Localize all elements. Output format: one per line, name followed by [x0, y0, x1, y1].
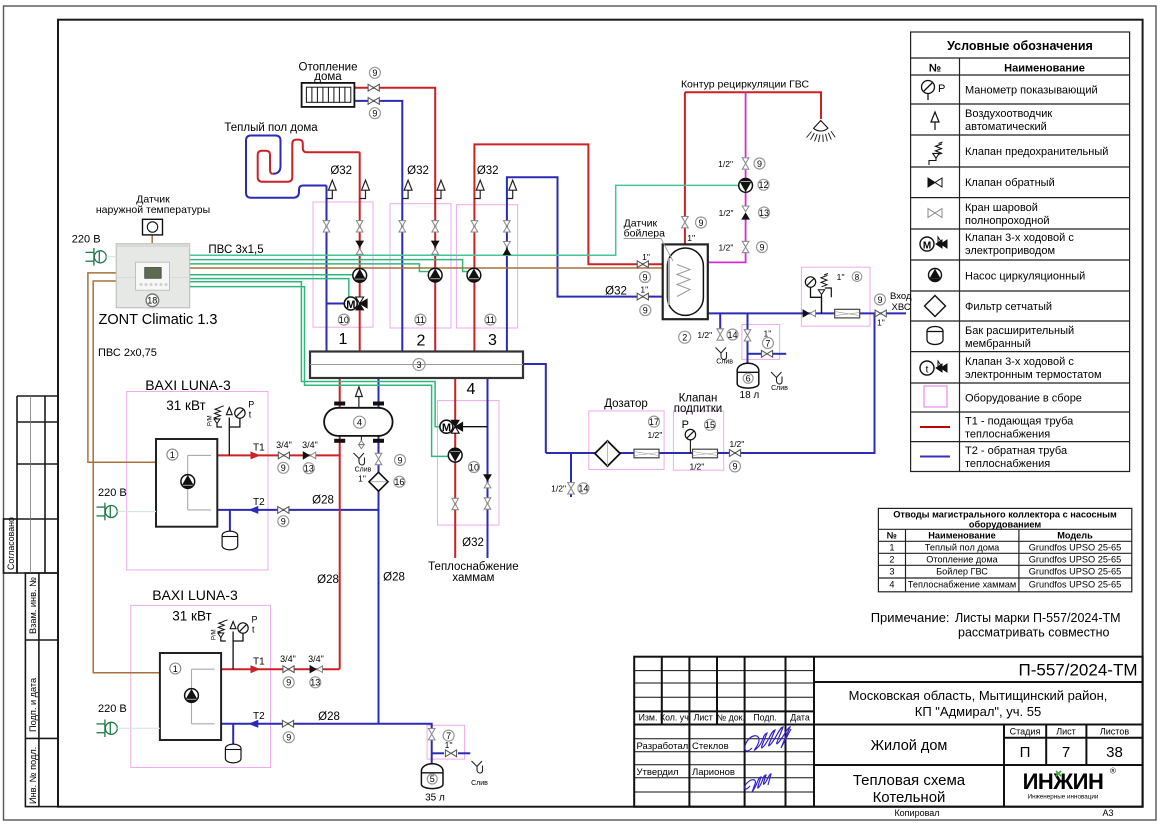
green control wires — [190, 185, 739, 456]
wire: boiler2 exp tank stem — [232, 724, 234, 746]
svg-text:ХВС: ХВС — [892, 302, 911, 313]
svg-text:Разработал: Разработал — [637, 741, 689, 752]
svg-text:1/2'': 1/2'' — [729, 439, 744, 449]
pump at 191.5,695.5 — [185, 689, 199, 703]
HVS inlet group — [803, 272, 862, 318]
svg-text:Ø28: Ø28 — [312, 495, 334, 507]
makeup valve box — [673, 411, 723, 470]
svg-text:Листы марки П-557/2024-ТМ: Листы марки П-557/2024-ТМ — [955, 611, 1121, 625]
boiler2 top instruments — [211, 615, 257, 670]
diameter labels — [312, 165, 627, 723]
svg-text:рассматривать совместно: рассматривать совместно — [958, 626, 1109, 640]
svg-text:P: P — [682, 419, 689, 431]
svg-text:1/2": 1/2" — [551, 484, 566, 494]
svg-text:Grundfos UPSO 25-65: Grundfos UPSO 25-65 — [1029, 567, 1121, 577]
svg-text:Согласовано: Согласовано — [6, 517, 16, 570]
air vent at 474.4,198.5 — [474, 180, 484, 198]
svg-text:38: 38 — [1106, 744, 1123, 761]
svg-text:электроприводом: электроприводом — [965, 245, 1055, 257]
boiler1 T1 valve — [278, 452, 289, 459]
manometer — [922, 81, 935, 101]
ball valve at 359.7,226.3 — [356, 221, 363, 232]
INZHIN logo — [1023, 767, 1116, 801]
T2 line — [920, 456, 950, 458]
svg-text:Насос циркуляционный: Насос циркуляционный — [965, 271, 1085, 283]
svg-text:220 В: 220 В — [98, 487, 127, 499]
svg-text:Фильтр сетчатый: Фильтр сетчатый — [965, 301, 1052, 313]
svg-text:Клапан предохранительный: Клапан предохранительный — [965, 146, 1108, 158]
svg-text:1": 1" — [642, 252, 650, 262]
svg-text:Ø28: Ø28 — [383, 572, 405, 584]
flange at 339.7,403.5 — [334, 402, 345, 406]
brown sensor wires — [88, 235, 674, 673]
wire: group1 blue pipe — [326, 186, 328, 352]
air vent at 402.3,198.5 — [402, 180, 412, 198]
svg-text:Т2: Т2 — [253, 711, 265, 722]
pump — [929, 269, 942, 282]
svg-text:P: P — [248, 400, 254, 410]
svg-text:3/4": 3/4" — [276, 440, 292, 450]
svg-text:Московская область, Мытищински: Московская область, Мытищинский район, — [849, 688, 1108, 703]
svg-text:1/2": 1/2" — [697, 330, 712, 340]
svg-text:31 кВт: 31 кВт — [166, 398, 205, 413]
wire: group4 blue pipe — [487, 378, 489, 558]
18l expansion group — [744, 330, 751, 341]
shower head — [807, 121, 836, 143]
wire: M1 branch — [327, 303, 345, 305]
svg-text:9: 9 — [759, 242, 764, 252]
svg-text:9: 9 — [372, 109, 377, 119]
svg-text:9: 9 — [698, 218, 703, 228]
membrane tank at 432.2,776 — [421, 764, 443, 789]
svg-text:Наименование: Наименование — [1004, 63, 1085, 75]
check valve — [928, 178, 942, 187]
svg-text:полнопроходной: полнопроходной — [965, 215, 1050, 227]
wire: to 3-way valve M1 — [190, 279, 349, 298]
wire: to 3-way valve group 4 — [190, 282, 440, 427]
svg-text:3: 3 — [889, 567, 894, 577]
T2 blue pipework — [217, 101, 906, 764]
group 4 box — [438, 401, 500, 525]
svg-text:2: 2 — [417, 333, 426, 350]
wire: to pump group 1 — [190, 274, 353, 276]
svg-text:ПВС 3х1,5: ПВС 3х1,5 — [208, 244, 263, 256]
svg-text:BAXI LUNA-3: BAXI LUNA-3 — [145, 377, 231, 393]
svg-text:Р/М: Р/М — [211, 629, 217, 640]
svg-text:бойлера: бойлера — [624, 228, 666, 240]
svg-text:М: М — [923, 241, 931, 252]
svg-text:Ø32: Ø32 — [605, 286, 627, 298]
wire: boiler1 T2 — [217, 509, 378, 511]
svg-text:220 В: 220 В — [72, 234, 101, 246]
svg-text:Контур рециркуляции ГВС: Контур рециркуляции ГВС — [681, 78, 810, 90]
svg-text:Стеклов: Стеклов — [692, 741, 729, 752]
svg-text:Оборудование в сборе: Оборудование в сборе — [965, 393, 1082, 405]
ZONT controller — [116, 244, 190, 308]
3-way valve M4 — [440, 420, 488, 434]
svg-text:1/2'': 1/2'' — [647, 430, 662, 440]
svg-text:4: 4 — [467, 381, 476, 398]
svg-text:35 л: 35 л — [425, 793, 445, 804]
boiler1 expansion tank — [222, 531, 238, 550]
collector — [310, 352, 523, 379]
tank drain branch — [717, 329, 724, 340]
gauge at 690.4,434.6 — [685, 429, 695, 439]
ball valve — [928, 209, 942, 218]
ball valve at 451,753.3 — [445, 750, 456, 757]
group 2 box — [390, 204, 451, 328]
svg-text:Утвердил: Утвердил — [637, 767, 679, 778]
svg-text:9: 9 — [757, 159, 762, 169]
dozator box — [589, 411, 664, 470]
svg-text:теплоснабжения: теплоснабжения — [965, 458, 1050, 470]
svg-text:9: 9 — [281, 517, 286, 527]
svg-text:Grundfos UPSO 25-65: Grundfos UPSO 25-65 — [1029, 555, 1121, 565]
svg-text:наружной температуры: наружной температуры — [96, 204, 210, 216]
wire: boiler 2 control — [93, 281, 160, 673]
svg-text:Клапан 3-х ходовой с: Клапан 3-х ходовой с — [965, 356, 1074, 368]
wire: recirculation riser — [745, 92, 747, 157]
membrane tank at 748,375.5 — [737, 363, 759, 388]
air vent at 359.7,198.5 — [360, 180, 370, 198]
wire: tank top hot outlet — [684, 92, 686, 216]
ball valve at 735,453 — [729, 450, 740, 457]
svg-text:Ø32: Ø32 — [462, 537, 484, 549]
svg-text:Кол. уч.: Кол. уч. — [660, 713, 691, 723]
vents on group pipes — [327, 180, 337, 198]
svg-text:Клапан 3-х ходовой с: Клапан 3-х ходовой с — [965, 232, 1074, 244]
3-way valve body at 359.7,303.5 — [356, 297, 368, 310]
svg-text:№: № — [887, 531, 897, 541]
svg-text:хаммам: хаммам — [452, 572, 494, 584]
flange at 378.5,403.5 — [373, 402, 384, 406]
svg-text:Кран шаровой: Кран шаровой — [965, 202, 1038, 214]
svg-text:9: 9 — [877, 295, 882, 305]
svg-text:Манометр показывающий: Манометр показывающий — [965, 85, 1098, 97]
35l group — [428, 729, 435, 740]
T1 line — [920, 426, 950, 428]
svg-text:2: 2 — [682, 333, 687, 343]
left margin strip cells — [4, 396, 59, 807]
separator drain — [360, 436, 362, 441]
svg-text:Grundfos UPSO 25-65: Grundfos UPSO 25-65 — [1029, 543, 1121, 553]
group 4 check valve — [484, 475, 491, 488]
svg-text:Изм.: Изм. — [639, 713, 658, 723]
svg-text:3: 3 — [488, 332, 497, 349]
svg-text:220 В: 220 В — [98, 703, 127, 715]
svg-text:9: 9 — [281, 463, 286, 473]
svg-text:11: 11 — [486, 315, 495, 325]
svg-text:ИНЖИН: ИНЖИН — [1023, 769, 1104, 794]
air vent at 435.2,198.5 — [435, 180, 445, 198]
svg-text:Теплый пол дома: Теплый пол дома — [224, 122, 318, 134]
group 1 box — [313, 202, 373, 327]
svg-text:1: 1 — [889, 543, 894, 553]
svg-text:1'': 1'' — [687, 233, 695, 243]
boiler1 T1 check — [303, 452, 316, 459]
svg-text:Слив: Слив — [355, 467, 372, 474]
svg-text:Стадия: Стадия — [1010, 727, 1041, 737]
svg-text:14: 14 — [578, 484, 588, 494]
svg-text:1": 1" — [640, 285, 648, 295]
svg-text:9: 9 — [397, 455, 402, 465]
svg-text:9: 9 — [643, 306, 648, 316]
svg-text:3/4": 3/4" — [280, 654, 296, 664]
air vent — [931, 112, 939, 130]
svg-text:18 л: 18 л — [740, 390, 760, 401]
svg-text:М: М — [346, 299, 355, 311]
valve on tank red inlet — [637, 261, 648, 268]
svg-text:электронным термостатом: электронным термостатом — [965, 369, 1102, 381]
safety valve — [929, 142, 943, 165]
svg-text:1/2": 1/2" — [719, 208, 734, 218]
radiator: home heating — [302, 83, 355, 107]
wire: DHW recirculation loop top — [685, 92, 821, 119]
wire: to pump group 4 — [190, 287, 449, 457]
svg-text:3: 3 — [416, 360, 421, 370]
svg-text:Отводы магистрального коллекто: Отводы магистрального коллектора с насос… — [893, 510, 1117, 520]
svg-text:Ø32: Ø32 — [407, 165, 429, 177]
group 1: ball valves — [323, 221, 330, 232]
pump at 473.9,275.1 — [467, 268, 481, 282]
svg-text:15: 15 — [705, 420, 715, 430]
svg-text:1'': 1'' — [837, 272, 845, 282]
svg-text:Теплоснабжение хаммам: Теплоснабжение хаммам — [908, 580, 1016, 590]
svg-text:Модель: Модель — [1057, 531, 1093, 541]
filter cartridge at 847.2,313.6 — [835, 309, 860, 318]
check valve at 316.5,669.2 — [310, 666, 323, 673]
svg-text:Ø28: Ø28 — [318, 711, 340, 723]
pump at 745.6,185.4 — [739, 179, 753, 193]
svg-text:1": 1" — [877, 318, 885, 328]
svg-text:13: 13 — [759, 208, 769, 218]
group 3 box — [456, 205, 517, 328]
svg-text:Копировал: Копировал — [894, 808, 939, 818]
svg-text:4: 4 — [889, 580, 894, 590]
drain outlet at 776.5,383 — [771, 372, 782, 384]
check valve at 745.6,212.4 — [742, 206, 749, 219]
svg-text:Теплый пол дома: Теплый пол дома — [925, 543, 1000, 553]
boiler2 T1 arrow — [251, 665, 261, 673]
svg-text:Т1 - подающая труба: Т1 - подающая труба — [965, 416, 1074, 428]
wire: separator red riser — [339, 378, 341, 669]
svg-text:1": 1" — [358, 474, 366, 484]
ball valve at 435.2,226.3 — [432, 221, 439, 232]
svg-text:№ док.: № док. — [717, 713, 745, 723]
svg-text:Слив: Слив — [471, 780, 488, 787]
220V plugs — [72, 234, 116, 266]
T1 red pipework — [217, 88, 821, 670]
wire: coil red inner spiral — [258, 140, 360, 182]
svg-text:10: 10 — [469, 462, 479, 472]
wire: otopleniye blue return — [355, 101, 403, 352]
svg-text:5: 5 — [430, 774, 435, 784]
svg-text:Т2 - обратная труба: Т2 - обратная труба — [965, 445, 1068, 457]
svg-text:18: 18 — [147, 296, 157, 306]
svg-text:Бак расширительный: Бак расширительный — [965, 325, 1074, 337]
ball valve at 288,723.8 — [282, 720, 293, 727]
svg-text:7: 7 — [1062, 744, 1070, 761]
group 2 ball valves — [399, 221, 406, 232]
svg-text:Листов: Листов — [1100, 727, 1129, 737]
svg-text:Дозатор: Дозатор — [604, 398, 648, 410]
check valve at 435.2,247.9 — [432, 241, 439, 254]
magenta DHW recirculation — [708, 92, 746, 262]
wire: to recirculation pump 12 — [190, 185, 739, 255]
expansion tank — [927, 327, 943, 345]
svg-text:4: 4 — [357, 418, 362, 428]
svg-text:9: 9 — [642, 272, 647, 282]
svg-text:теплоснабжения: теплоснабжения — [965, 429, 1050, 441]
svg-text:13: 13 — [304, 464, 314, 474]
3-way valve body at 455.2,426.7 — [451, 420, 463, 433]
wire: boiler2 T1 — [221, 668, 340, 670]
ball valve at 745.6,247 — [742, 241, 749, 252]
svg-text:Лист: Лист — [1056, 727, 1076, 737]
svg-text:Вход: Вход — [890, 291, 912, 302]
svg-text:3/4": 3/4" — [302, 440, 318, 450]
wire: boiler tank sensor — [190, 267, 674, 269]
boiler1 T1 arrow — [251, 451, 261, 459]
wire: to pump group 2 — [190, 264, 429, 272]
svg-text:Ø32: Ø32 — [477, 165, 499, 177]
svg-text:Бойлер ГВС: Бойлер ГВС — [936, 567, 988, 577]
circled position numbers — [278, 67, 886, 784]
svg-text:P: P — [252, 615, 258, 625]
svg-text:П-557/2024-ТМ: П-557/2024-ТМ — [1019, 661, 1138, 680]
svg-text:П: П — [1020, 744, 1031, 761]
svg-text:2: 2 — [889, 555, 894, 565]
svg-text:7: 7 — [765, 338, 770, 348]
svg-text:7: 7 — [446, 731, 451, 741]
signatures — [744, 727, 791, 791]
group 4 ball valves — [452, 498, 459, 509]
svg-text:Ларионов: Ларионов — [692, 767, 735, 778]
wire: 35l drain branch — [432, 752, 444, 754]
svg-text:31 кВт: 31 кВт — [172, 609, 211, 624]
DHW boiler tank — [663, 244, 708, 319]
wire: 18l branch — [747, 313, 749, 329]
wire: group4 red pipe — [454, 378, 456, 558]
svg-text:1: 1 — [339, 331, 348, 348]
flange at 378.5,440.8 — [373, 439, 384, 443]
wire: outdoor sensor stem — [151, 235, 153, 244]
wire: boiler2 T2 line — [221, 724, 432, 729]
boiler2 expansion tank — [225, 744, 241, 763]
recirculation valves & pump — [742, 158, 749, 169]
svg-text:Жилой дом: Жилой дом — [871, 738, 948, 754]
svg-text:Клапан обратный: Клапан обратный — [965, 177, 1055, 189]
svg-text:14: 14 — [727, 330, 737, 340]
strainer filter 16 — [369, 472, 388, 491]
svg-text:Лист: Лист — [694, 713, 713, 723]
wire: separator blue riser — [378, 378, 380, 454]
svg-text:1/2'': 1/2'' — [689, 462, 704, 472]
air vent at 506.9,198.5 — [507, 180, 517, 198]
svg-text:автоматический: автоматический — [965, 121, 1047, 133]
check valves groups — [356, 241, 363, 254]
svg-text:3/4": 3/4" — [308, 654, 324, 664]
18l valve box — [742, 325, 780, 360]
svg-text:Подп.: Подп. — [753, 713, 776, 723]
ball valve at 506.9,226.3 — [504, 221, 511, 232]
ball valve at 767,353.8 — [761, 350, 772, 357]
wire: tank bottom DHW cold feed — [708, 312, 906, 314]
svg-text:Дата: Дата — [790, 713, 810, 723]
svg-text:6: 6 — [746, 373, 751, 383]
svg-text:А3: А3 — [1102, 808, 1113, 818]
wire: makeup branch valve 14 — [570, 453, 572, 482]
flange at 339.7,440.8 — [334, 439, 345, 443]
boiler 2 — [160, 653, 221, 740]
wire: makeup water line — [546, 313, 875, 453]
ball valve at 487.5,503.5 — [484, 498, 491, 509]
3-way motor valve — [920, 237, 947, 252]
svg-text:1: 1 — [173, 664, 178, 674]
svg-text:ПВС 2х0,75: ПВС 2х0,75 — [98, 347, 157, 359]
makeup branch valve 14 — [568, 483, 575, 494]
drain outlet at 721,358.5 — [716, 348, 727, 360]
svg-text:9: 9 — [732, 462, 737, 472]
pump at 435.2,275.1 — [428, 268, 442, 282]
svg-text:Ø32: Ø32 — [330, 165, 352, 177]
wire: group3 blue riser to tank — [507, 177, 663, 351]
valve on tank top hot out — [682, 217, 689, 228]
wire: drain branch at tank — [719, 313, 721, 330]
hvs inlet box — [801, 267, 870, 326]
check valve at 809.5,313.4 — [803, 310, 816, 317]
wire: coil blue outer spiral — [246, 136, 327, 198]
valve on radiator return — [368, 98, 379, 105]
svg-text:Условные обозначения: Условные обозначения — [947, 39, 1093, 53]
check valve at 506.9,247.9 — [503, 242, 510, 255]
svg-text:1/2": 1/2" — [719, 243, 734, 253]
group 4 pump — [448, 448, 462, 462]
wire: 35l line — [431, 740, 433, 764]
wire: otopleniye red supply — [355, 88, 436, 352]
ball valve at 880.7,313.4 — [875, 310, 886, 317]
svg-text:9: 9 — [372, 68, 377, 78]
svg-text:Взам. инв. №: Взам. инв. № — [28, 577, 38, 634]
svg-text:Примечание:: Примечание: — [871, 610, 950, 625]
legend symbols — [920, 81, 950, 457]
gauge at 243,628 — [238, 623, 248, 633]
svg-text:№: № — [929, 63, 941, 75]
group numerals — [339, 331, 498, 398]
wire: to pump group 3 — [190, 260, 468, 272]
svg-text:10: 10 — [339, 315, 349, 325]
svg-text:16: 16 — [394, 477, 404, 487]
boiler 2 box — [131, 605, 271, 767]
svg-text:Воздухоотводчик: Воздухоотводчик — [965, 108, 1052, 120]
35l valve box — [427, 725, 465, 759]
svg-text:1: 1 — [170, 450, 175, 460]
wire: red into tank — [663, 263, 677, 265]
svg-text:BAXI LUNA-3: BAXI LUNA-3 — [152, 587, 238, 603]
boiler1 top instruments — [208, 400, 255, 456]
strainer — [925, 296, 946, 317]
svg-text:ZONT Climatic 1.3: ZONT Climatic 1.3 — [99, 312, 218, 328]
svg-text:Grundfos UPSO 25-65: Grundfos UPSO 25-65 — [1029, 580, 1121, 590]
wire: collector right link to makeup — [523, 364, 546, 453]
boiler1 T2 valve — [278, 507, 289, 514]
left strip rotated labels — [6, 517, 38, 804]
wire: boiler1 exp tank stem — [229, 510, 231, 533]
3-way valve M1 — [344, 297, 367, 311]
valve on radiator supply — [368, 84, 379, 91]
drain outlet at 359,464 — [354, 453, 365, 465]
svg-text:12: 12 — [758, 180, 768, 190]
